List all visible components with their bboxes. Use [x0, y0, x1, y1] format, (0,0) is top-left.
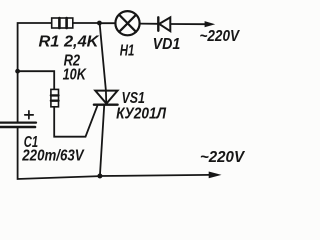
wire: VS1 cathode down to node C: [100, 106, 104, 176]
node C (junction of VS1 cathode and bottom wire): [97, 174, 102, 179]
svg-text:VS1: VS1: [122, 90, 145, 107]
wire: R1 to node A: [73, 22, 100, 24]
svg-text:220m/63V: 220m/63V: [21, 148, 84, 165]
svg-text:VD1: VD1: [153, 36, 181, 53]
svg-text:10K: 10K: [63, 67, 87, 84]
resistor R1: [52, 18, 73, 28]
wire: capacitor C1 bottom plate down and along the bottom to node C: [18, 128, 100, 179]
svg-text:КУ201Л: КУ201Л: [116, 106, 167, 123]
wire: left vertical from node B down to capacitor C1 top plate: [17, 71, 19, 122]
lamp H1: [115, 11, 139, 35]
wire: lamp H1 to diode VD1: [139, 23, 157, 25]
resistor R2: [51, 89, 59, 106]
node A (junction of R1, lamp, VS1 anode): [97, 21, 102, 26]
node B (junction of left wire and R2 branch): [15, 69, 20, 74]
terminal arrow (bottom ~220V): [209, 172, 222, 179]
diode VD1 (cathode bar on left, triangle pointing left): [158, 17, 170, 31]
svg-text:H1: H1: [120, 43, 135, 60]
wire: node A to lamp H1: [99, 22, 115, 24]
svg-text:~220V: ~220V: [200, 149, 245, 166]
wire: R2 bottom to VS1 gate (down, right, diagonal up): [54, 106, 97, 137]
svg-text:R1 2,4K: R1 2,4K: [39, 33, 100, 50]
wire: top-left corner segment (horizontal to R1 and down the left side): [18, 23, 52, 71]
svg-text:~220V: ~220V: [200, 28, 241, 45]
wire: node A down to thyristor VS1 anode (continues through the triangle): [100, 24, 107, 105]
wire: node B to resistor R2 top: [19, 71, 54, 89]
capacitor C1 (polarized, plates cut at left edge): [0, 111, 36, 127]
thyristor VS1: [94, 91, 118, 105]
terminal arrow (top ~220V): [205, 21, 216, 27]
wire: node C to bottom terminal arrow: [100, 175, 210, 176]
wire: diode VD1 to top terminal arrow: [170, 23, 205, 25]
